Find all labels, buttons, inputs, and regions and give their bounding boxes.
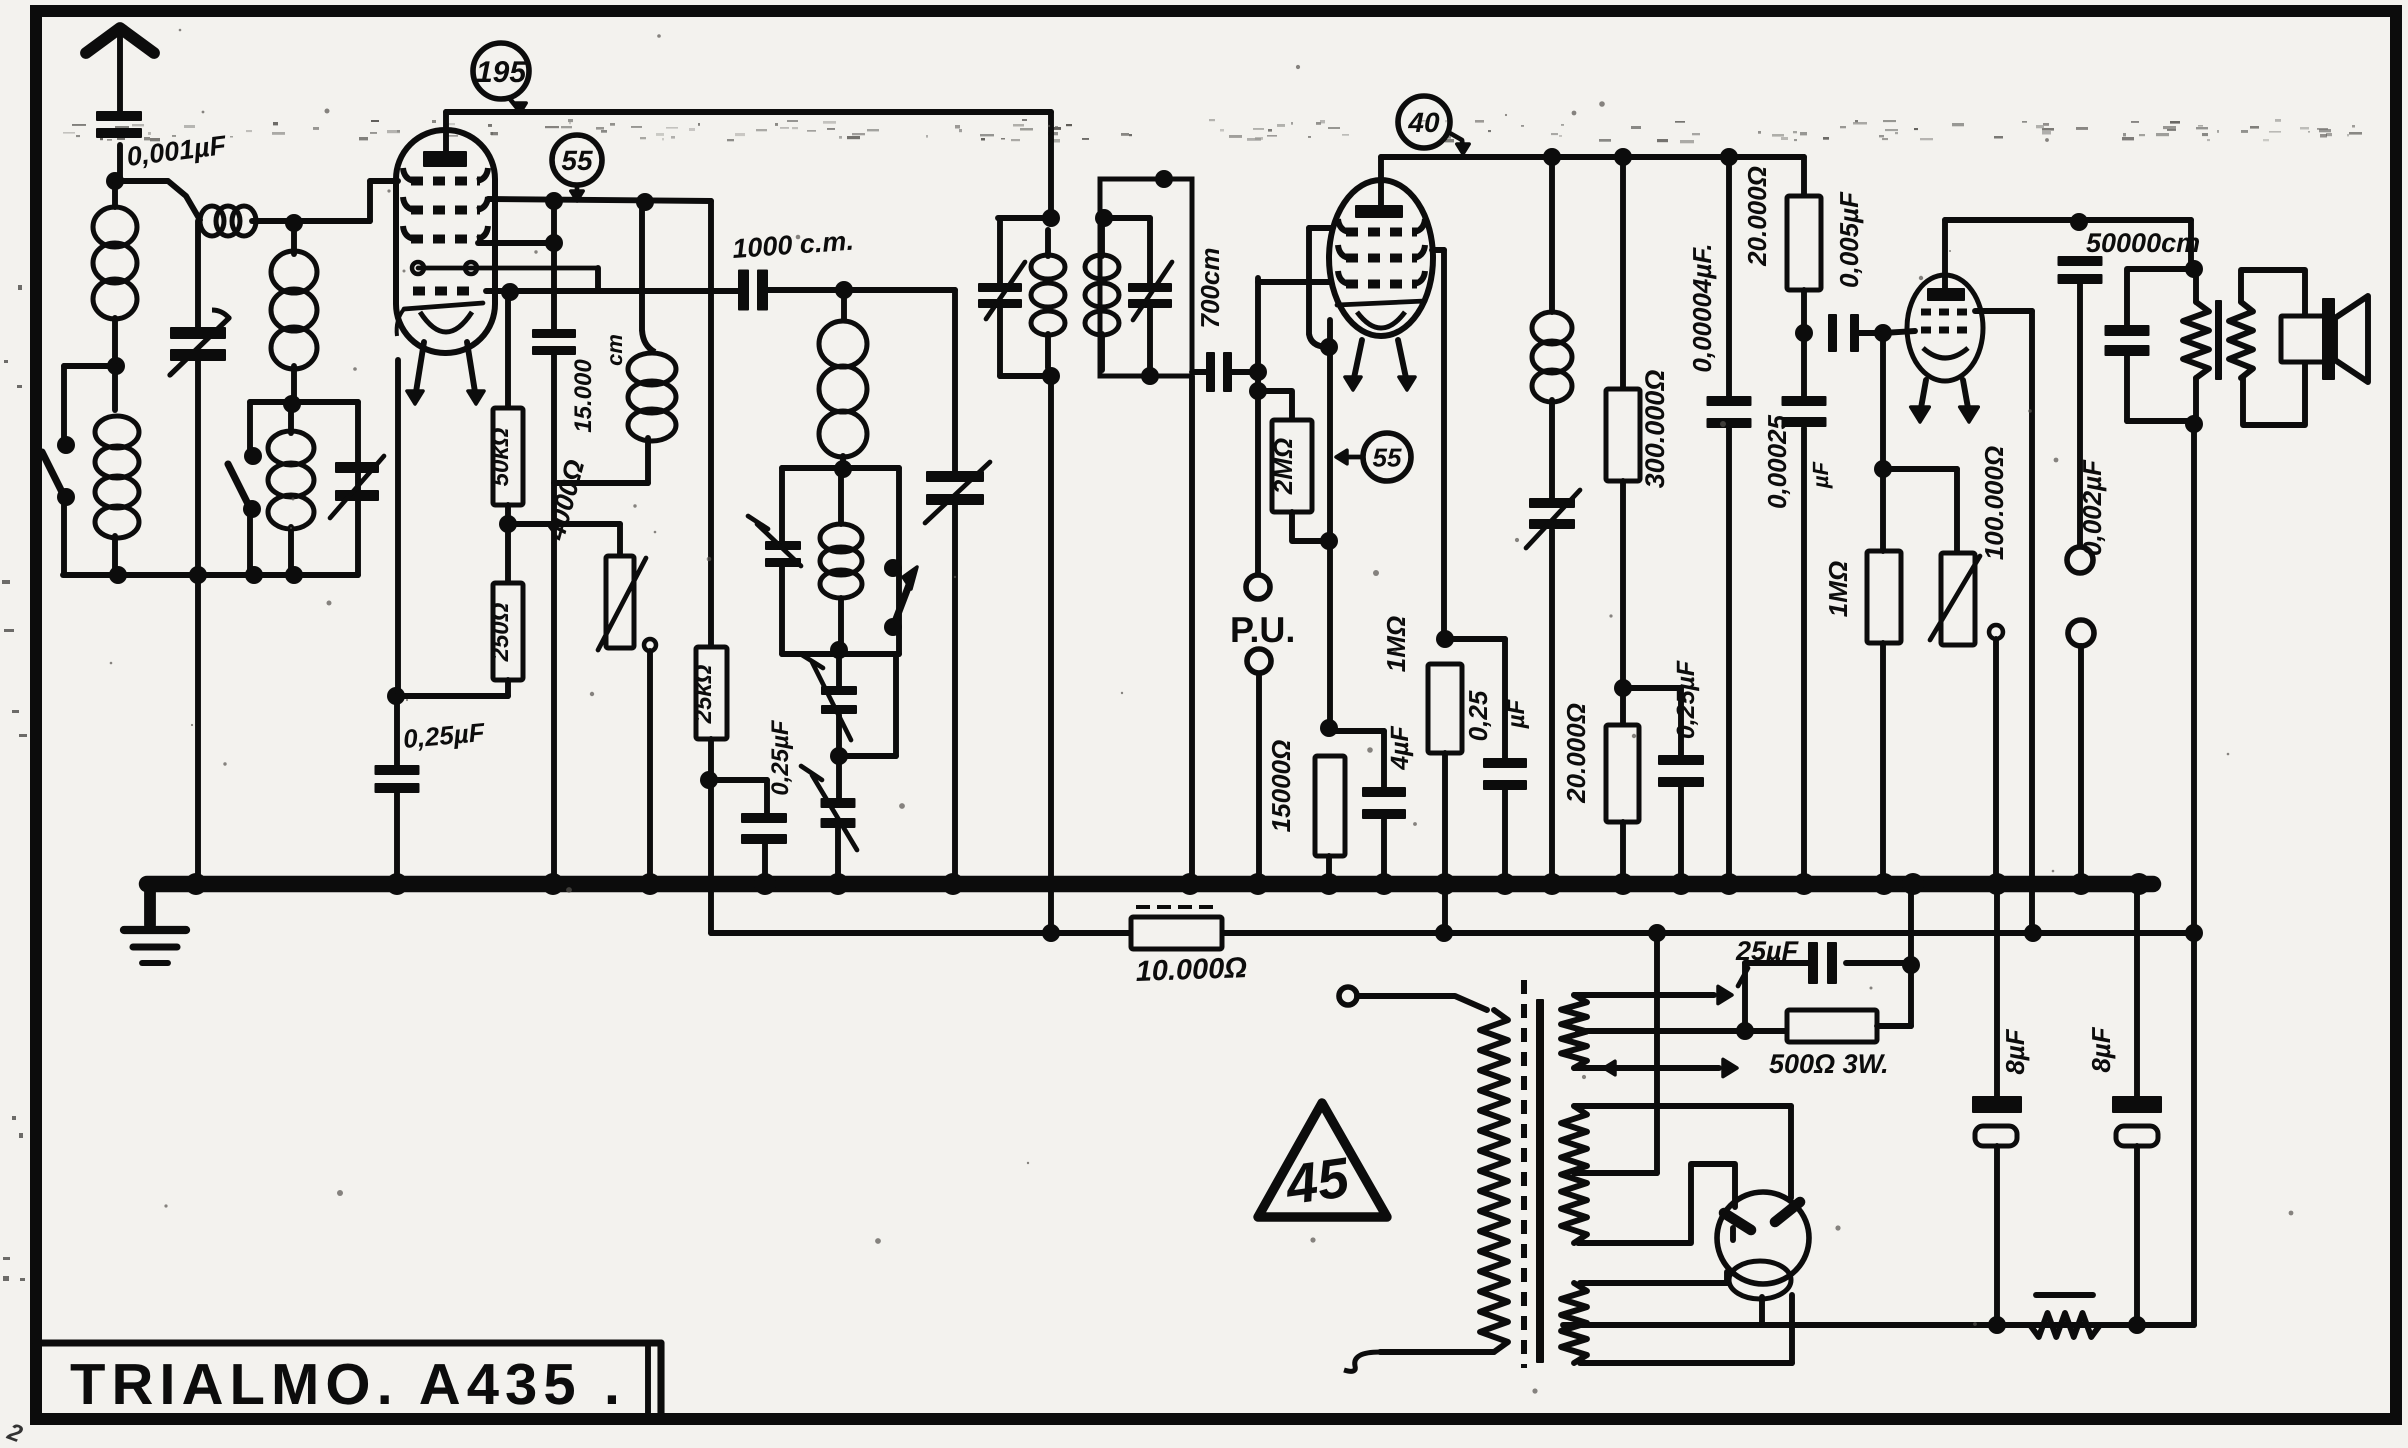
svg-text:0,002µF: 0,002µF (2077, 459, 2107, 556)
svg-text:100.000Ω: 100.000Ω (1979, 446, 2009, 560)
svg-text:0,25µF: 0,25µF (767, 719, 794, 796)
svg-text:2MΩ: 2MΩ (1268, 438, 1298, 495)
svg-text:250Ω: 250Ω (487, 602, 514, 662)
svg-text:µF: µF (1808, 461, 1833, 489)
svg-text:0,00004µF.: 0,00004µF. (1687, 243, 1717, 372)
svg-text:1MΩ: 1MΩ (1381, 616, 1411, 672)
svg-text:0,00025: 0,00025 (1762, 414, 1792, 509)
svg-text:P.U.: P.U. (1230, 609, 1295, 650)
svg-text:25µF: 25µF (1735, 936, 1800, 966)
svg-text:25kΩ: 25kΩ (690, 664, 717, 724)
svg-text:1MΩ: 1MΩ (1823, 561, 1853, 617)
svg-text:55: 55 (561, 145, 593, 176)
svg-text:µF: µF (1503, 698, 1530, 729)
svg-text:15000Ω: 15000Ω (1266, 740, 1296, 833)
svg-text:8µF: 8µF (2000, 1028, 2030, 1074)
svg-text:20.000Ω: 20.000Ω (1742, 166, 1772, 267)
svg-text:55: 55 (1373, 442, 1402, 472)
svg-text:4µF: 4µF (1386, 725, 1414, 770)
svg-text:8µF: 8µF (2086, 1026, 2116, 1072)
svg-text:300.000Ω: 300.000Ω (1640, 370, 1670, 489)
svg-text:40: 40 (1407, 107, 1440, 138)
svg-text:20.000Ω: 20.000Ω (1561, 703, 1591, 804)
svg-text:cm: cm (602, 334, 627, 366)
svg-text:0,005µF: 0,005µF (1834, 191, 1864, 288)
svg-text:0,25µF: 0,25µF (1672, 660, 1700, 739)
svg-text:50kΩ: 50kΩ (487, 427, 514, 486)
svg-text:700cm: 700cm (1195, 248, 1225, 329)
svg-text:50000cm: 50000cm (2086, 228, 2200, 258)
svg-text:500Ω 3W.: 500Ω 3W. (1769, 1049, 1889, 1079)
svg-text:195: 195 (476, 56, 527, 89)
svg-text:45: 45 (1281, 1145, 1353, 1216)
svg-text:15.000: 15.000 (570, 359, 597, 433)
svg-text:10.000Ω: 10.000Ω (1135, 952, 1248, 988)
svg-text:0,25: 0,25 (1463, 690, 1493, 741)
